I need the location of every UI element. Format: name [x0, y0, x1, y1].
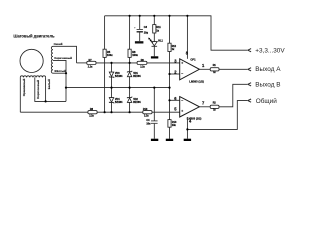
svg-text:Общий: Общий [256, 97, 277, 105]
ground (C4) [151, 139, 158, 141]
wire R6 / VD1 / VD2 column [129, 16, 131, 112]
svg-text:BZX84: BZX84 [115, 75, 123, 78]
svg-text:2.2к: 2.2к [144, 115, 149, 118]
ground (R13) [166, 139, 173, 141]
zener VD1 [127, 71, 141, 78]
svg-text:1к: 1к [213, 71, 216, 74]
resistor R1 [210, 64, 219, 74]
junction: pin6 net / reference column [168, 99, 170, 101]
svg-text:8: 8 [186, 50, 189, 55]
wire output B [199, 106, 210, 108]
op-amp U1.2 [180, 97, 202, 121]
svg-text:Выход B: Выход B [255, 82, 280, 89]
resistor R10 [143, 108, 152, 117]
pin 4 wire [186, 117, 188, 129]
svg-text:100к: 100к [132, 53, 138, 57]
wire L2 left lead [19, 77, 21, 112]
arrow out A [248, 68, 251, 71]
junction: phase B net / R5 [104, 111, 106, 113]
junction: common net / VD1-VD2 [129, 87, 131, 89]
resistor R7 [87, 59, 96, 68]
junction: pin2 net / R12 [168, 73, 170, 75]
junction: pin3 net / R6 [129, 62, 131, 64]
wire tap Синий [53, 46, 77, 63]
svg-text:BZX84: BZX84 [133, 101, 141, 104]
svg-text:R1: R1 [213, 64, 217, 67]
op-amp U1.1 [180, 58, 204, 84]
svg-text:C3: C3 [144, 26, 148, 29]
svg-text:Выход A: Выход A [255, 66, 281, 73]
svg-text:Оранжевый: Оранжевый [22, 78, 26, 96]
svg-text:2.2к: 2.2к [89, 115, 94, 118]
wire channel B line [20, 111, 179, 113]
svg-text:Коричневый: Коричневый [54, 56, 72, 60]
svg-text:7: 7 [202, 101, 205, 106]
wire mid reference line [66, 87, 170, 89]
svg-text:R10: R10 [143, 108, 148, 111]
wire tap Жёлтый [53, 72, 66, 74]
svg-text:1: 1 [202, 63, 205, 68]
junction: common net / C4 [153, 87, 155, 89]
resistor R9 [137, 59, 147, 68]
wire common net [187, 101, 247, 130]
svg-text:Коричневый: Коричневый [36, 80, 40, 99]
winding L1 (vertical coil) [51, 46, 53, 73]
wire output A [199, 68, 210, 70]
wire pin2 stub [170, 73, 180, 75]
pin4 ground stem [186, 129, 188, 138]
svg-text:1к: 1к [172, 48, 175, 51]
resistor R11 [153, 25, 162, 33]
wire top rail [105, 16, 248, 50]
zener VD4 [109, 98, 123, 104]
svg-text:10к: 10к [172, 124, 177, 127]
zener VD2 [127, 97, 141, 104]
wire L2 mid tap [35, 77, 46, 101]
arrow common [248, 99, 251, 102]
wire L2 right lead [46, 77, 66, 101]
resistor R13 [168, 120, 177, 128]
svg-text:2.2к: 2.2к [88, 65, 93, 68]
LED HL1 [148, 38, 163, 47]
junction: pin 4 / common return [186, 128, 188, 130]
junction: common net / VD3-VD4 [110, 87, 112, 89]
ground (HL1) [151, 56, 158, 58]
zener VD3 [109, 72, 123, 78]
wire to out B arrow [219, 84, 248, 107]
wire R7 feed [77, 62, 87, 64]
winding L2 (horizontal coil) [20, 76, 45, 78]
junction: common net / reference column [168, 87, 170, 89]
svg-text:BZX84: BZX84 [115, 101, 123, 104]
resistor R6 [128, 49, 139, 57]
junction: pin3 net / VD3 [110, 62, 112, 64]
svg-text:Шаговый двигатель: Шаговый двигатель [13, 34, 55, 39]
junction: rail / R6 [129, 15, 131, 17]
wire pin3 line [96, 62, 180, 64]
pin 8 wire [186, 16, 188, 59]
wire R5 column [104, 16, 106, 112]
svg-text:10н: 10н [146, 123, 151, 126]
junction: rail / R12 [168, 15, 170, 17]
svg-text:100к: 100к [107, 53, 113, 57]
capacitor C3 [134, 16, 149, 44]
svg-text:1к: 1к [213, 109, 216, 112]
svg-text:R5: R5 [107, 50, 111, 54]
svg-text:+: + [134, 26, 136, 30]
resistor R12 [168, 43, 177, 51]
capacitor C4 [146, 88, 157, 139]
arrow out B [248, 83, 251, 86]
svg-text:1к: 1к [156, 29, 159, 32]
svg-text:5: 5 [174, 107, 177, 112]
svg-text:Синий: Синий [54, 42, 63, 46]
svg-text:R6: R6 [132, 50, 136, 54]
svg-text:Жёлтый: Жёлтый [53, 69, 66, 73]
junction: phase B net / VD2 [129, 111, 131, 113]
resistor R5 [103, 49, 113, 57]
svg-text:R2: R2 [213, 102, 217, 105]
wire tap Коричневый [53, 60, 66, 101]
svg-text:Белый: Белый [47, 79, 51, 89]
motor body [20, 49, 43, 72]
wire R12 / R13 reference column [169, 16, 171, 120]
svg-text:OP1: OP1 [190, 58, 196, 62]
svg-text:HL1: HL1 [158, 39, 163, 42]
resistor R8 [88, 108, 97, 117]
svg-text:2.2к: 2.2к [140, 65, 145, 68]
junction: rail / C3 [139, 15, 141, 17]
ground (pin 4) [184, 139, 191, 141]
svg-text:BZX84: BZX84 [133, 75, 141, 78]
wire R11 / HL1 column [153, 16, 155, 42]
junction: common net / motor taps [65, 87, 67, 89]
svg-text:+3,3...30V: +3,3...30V [255, 48, 285, 55]
svg-text:10µ: 10µ [144, 31, 149, 34]
junction: winding taps join [65, 72, 67, 74]
svg-text:LM393 (1/2): LM393 (1/2) [189, 79, 204, 83]
wire pin6 stub [170, 99, 180, 101]
wire VD3 / VD4 column [111, 63, 113, 112]
junction: winding L2 taps join [45, 100, 47, 102]
junction: rail / R11 [153, 15, 155, 17]
junction: phase B net / VD4 [110, 111, 112, 113]
junction: rail / pin 8 [186, 15, 188, 17]
arrow +V [248, 49, 251, 52]
resistor R2 [210, 102, 219, 112]
wire to out A arrow [219, 68, 248, 70]
